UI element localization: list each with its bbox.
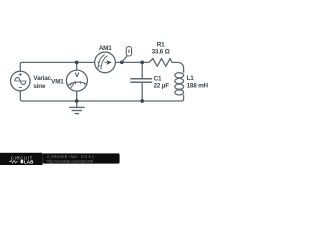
- svg-text:LAB: LAB: [24, 160, 34, 165]
- svg-text:188 mH: 188 mH: [187, 82, 209, 89]
- svg-text:http://circuitlab.com/c9pn245: http://circuitlab.com/c9pn245: [47, 159, 94, 163]
- svg-text:22 µF: 22 µF: [154, 82, 170, 89]
- svg-text:sine: sine: [33, 83, 46, 90]
- svg-text:VM1: VM1: [51, 79, 64, 86]
- svg-text:V: V: [75, 72, 80, 79]
- svg-text:33.6 Ω: 33.6 Ω: [152, 48, 170, 55]
- svg-text:L1: L1: [187, 75, 195, 82]
- svg-text:AM1: AM1: [99, 45, 112, 52]
- svg-text:Variac: Variac: [33, 75, 51, 82]
- svg-text:C1: C1: [154, 75, 162, 82]
